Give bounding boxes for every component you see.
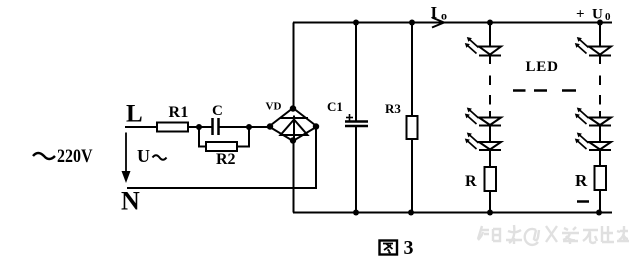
wire C1 top (355, 23, 357, 121)
dashed line between LED strings (513, 89, 576, 92)
svg-text:3: 3 (404, 237, 414, 259)
svg-text:o: o (441, 9, 447, 23)
node left string bottom (487, 210, 493, 216)
wire R1 to node A (188, 126, 212, 128)
label C1 plus (346, 114, 353, 121)
node C1 bottom (353, 210, 359, 216)
node left string top (487, 20, 493, 26)
svg-text:LED: LED (526, 59, 559, 75)
node right string bottom (596, 210, 602, 216)
LED D4 arrows (577, 37, 589, 48)
LED D2 (479, 118, 501, 126)
svg-text:+: + (576, 7, 585, 23)
svg-text:U: U (137, 146, 150, 166)
resistor R1 (157, 123, 188, 132)
LED D1 arrows (467, 37, 479, 48)
node R3 bottom (408, 210, 414, 216)
right LED string (589, 23, 611, 213)
node bridge left (267, 123, 273, 129)
resistor R right (595, 166, 607, 190)
node C1 top (353, 20, 359, 26)
wire bridge top vertex to top rail (293, 23, 295, 109)
wire R2 to node B (237, 127, 249, 147)
LED D5 arrows (577, 108, 589, 119)
svg-text:0: 0 (605, 11, 611, 23)
bridge rectifier VD diamond (269, 108, 317, 141)
LED D5 (589, 118, 611, 126)
node A dot (196, 124, 202, 130)
caption 图 3 (380, 241, 398, 255)
wire D3 to R (489, 150, 491, 167)
watermark 知乎 @X学无止境 (478, 225, 629, 245)
resistor R2 (206, 142, 237, 151)
svg-text:R1: R1 (169, 104, 189, 121)
svg-text:220V: 220V (57, 147, 93, 167)
svg-text:R3: R3 (385, 101, 401, 116)
node R3 top (409, 20, 415, 26)
LED D2 arrows (467, 108, 479, 119)
wire D6 to R (599, 150, 601, 166)
bridge diode triangle (281, 120, 308, 136)
label minus right (577, 200, 589, 203)
left LED string (479, 23, 501, 213)
svg-text:I: I (431, 3, 438, 22)
node right string top (597, 20, 603, 26)
wire L line (125, 126, 157, 128)
wire below D1 (489, 56, 491, 65)
LED D6 arrows (577, 133, 589, 144)
svg-text:N: N (121, 187, 140, 216)
svg-text:C: C (212, 103, 223, 119)
wire between D5 D6 (599, 126, 601, 143)
wire bridge bottom vertex to bottom rail (293, 141, 295, 213)
wire right string top (599, 23, 601, 47)
resistor R3 (407, 116, 418, 139)
svg-text:R: R (575, 171, 588, 190)
LED D6 (589, 142, 611, 150)
wire N line (127, 127, 316, 189)
wire between D2 D3 (489, 126, 491, 143)
wire R3 bottom (411, 139, 413, 213)
svg-text:C1: C1 (327, 99, 343, 114)
svg-text:L: L (126, 101, 143, 128)
wire below D4 (599, 56, 601, 65)
wire R to bottom rail right (599, 190, 601, 213)
wire R to bottom rail (489, 191, 491, 213)
capacitor C1 plates (345, 120, 368, 123)
arrow U~ direction (122, 133, 131, 184)
LED D3 (479, 142, 501, 150)
label ~220V (33, 153, 55, 159)
svg-text:U: U (592, 7, 603, 23)
wire dashed continuation right (599, 76, 601, 86)
svg-text:VD: VD (266, 101, 282, 113)
wire dashed continuation (489, 76, 491, 86)
wire C1 bottom (355, 127, 357, 213)
LED D3 arrows (467, 133, 479, 144)
node B dot (246, 124, 252, 130)
node bridge right (313, 123, 319, 129)
LED D1 (479, 46, 501, 48)
wire node A down to R2 (199, 127, 206, 147)
svg-text:R2: R2 (216, 151, 236, 168)
svg-text:R: R (465, 173, 477, 190)
wire C to node B (220, 126, 270, 128)
resistor R left (485, 167, 497, 191)
LED D4 (589, 46, 611, 48)
bridge diode bar (280, 117, 308, 119)
wire bottom rail (293, 212, 612, 214)
capacitor C (211, 118, 214, 135)
bridge diode axis (293, 116, 295, 139)
node bridge top (290, 105, 296, 111)
wire top rail (293, 22, 612, 24)
wire left string top (489, 23, 491, 47)
arrow Io on top rail (432, 18, 444, 28)
wire R3 top (411, 23, 413, 117)
node bridge bottom (290, 137, 296, 143)
